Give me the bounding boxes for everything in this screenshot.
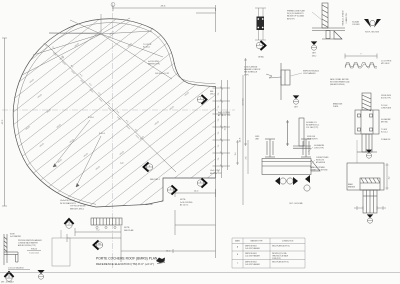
svg-text:SIMPSON HGUS: SIMPSON HGUS xyxy=(245,262,257,264)
svg-text:NOTE:: NOTE: xyxy=(124,227,130,229)
svg-text:1.5Ox 22 GA DECK: 1.5Ox 22 GA DECK xyxy=(8,267,25,270)
svg-text:AND BLOCKING (TYP): AND BLOCKING (TYP) xyxy=(18,244,36,247)
svg-text:SEE 5/S5.1: SEE 5/S5.1 xyxy=(150,179,160,181)
svg-text:AT 24 OC: AT 24 OC xyxy=(180,204,189,207)
svg-text:GLB 6 3/4 x 13 1/2: GLB 6 3/4 x 13 1/2 xyxy=(155,73,169,75)
svg-text:2'-0: 2'-0 xyxy=(218,106,220,109)
svg-text:COL CAP (TYP): COL CAP (TYP) xyxy=(306,126,319,129)
svg-text:W/ (4) 3/4 DIA BOLTS: W/ (4) 3/4 DIA BOLTS xyxy=(287,12,304,15)
svg-text:6'-2: 6'-2 xyxy=(97,230,100,232)
svg-text:PL 1/2x8: PL 1/2x8 xyxy=(381,105,387,107)
svg-text:TYP ROOF EDGE: TYP ROOF EDGE xyxy=(70,206,86,208)
svg-text:BEYOND: BEYOND xyxy=(381,122,389,124)
svg-text:1'-2: 1'-2 xyxy=(389,177,391,180)
svg-text:PROVIDE SIMPSON HANGER: PROVIDE SIMPSON HANGER xyxy=(18,239,42,242)
svg-text:4x12 RAFTER: 4x12 RAFTER xyxy=(10,235,22,238)
svg-text:2'-0: 2'-0 xyxy=(245,157,247,160)
svg-text:HSS 6x6: HSS 6x6 xyxy=(145,204,152,206)
svg-text:CONN (TYP): CONN (TYP) xyxy=(272,258,281,260)
svg-text:2'-0: 2'-0 xyxy=(218,145,220,148)
svg-text:24'-8 3/4: 24'-8 3/4 xyxy=(243,99,245,106)
svg-text:2'-0: 2'-0 xyxy=(218,132,220,135)
svg-text:CONT (TYP): CONT (TYP) xyxy=(314,148,324,150)
svg-text:EA SIDE TYP: EA SIDE TYP xyxy=(210,172,222,175)
svg-text:1'-4: 1'-4 xyxy=(235,153,237,156)
svg-text:4x12 OUTRIG: 4x12 OUTRIG xyxy=(218,112,231,114)
svg-text:EA SIDE OF GLULAM: EA SIDE OF GLULAM xyxy=(287,15,304,18)
svg-text:W 8x10: W 8x10 xyxy=(31,249,37,251)
svg-text:BOLTS (TYP): BOLTS (TYP) xyxy=(381,98,391,100)
svg-text:R 40'-6: R 40'-6 xyxy=(99,133,105,135)
svg-text:2x BLOCKING: 2x BLOCKING xyxy=(180,202,193,204)
svg-text:AT 24 OC TYP: AT 24 OC TYP xyxy=(218,114,231,117)
svg-text:GLULAM: GLULAM xyxy=(352,21,360,24)
svg-text:T. DECK: T. DECK xyxy=(381,129,388,131)
svg-text:SEE DET 4/S5.1: SEE DET 4/S5.1 xyxy=(70,208,84,210)
svg-text:CONN AT EACH RAFTER: CONN AT EACH RAFTER xyxy=(18,242,39,245)
svg-text:RAFTER (TYP): RAFTER (TYP) xyxy=(148,63,160,66)
svg-text:EL 115-6: EL 115-6 xyxy=(143,47,150,49)
svg-text:CUSSET PLATE: CUSSET PLATE xyxy=(316,156,329,159)
svg-text:JOIST HANGER: JOIST HANGER xyxy=(303,72,316,75)
svg-text:DET - 10 SCALE: DET - 10 SCALE xyxy=(1,281,15,284)
svg-text:SIMPSON HGUS: SIMPSON HGUS xyxy=(245,246,257,248)
svg-text:28'-6: 28'-6 xyxy=(161,6,167,8)
svg-text:(TYP): (TYP) xyxy=(244,74,249,76)
svg-text:W/ 3/4 DIA BOLTS: W/ 3/4 DIA BOLTS xyxy=(60,202,76,205)
svg-text:HANGER LOCATION: HANGER LOCATION xyxy=(244,68,261,71)
svg-text:BM (TYP): BM (TYP) xyxy=(287,18,295,20)
svg-text:2'-0: 2'-0 xyxy=(218,158,220,161)
svg-text:2'-0: 2'-0 xyxy=(218,119,220,122)
svg-text:GRID LINE: GRID LINE xyxy=(307,136,315,138)
svg-text:SIMPSON HGUS: SIMPSON HGUS xyxy=(245,253,257,255)
svg-text:REFERENCE ELEVATION (TM) 8'-0": REFERENCE ELEVATION (TM) 8'-0" (+0'-0") xyxy=(96,262,154,266)
svg-text:PORTE COCHERE ROOF (BMRS) PLAN: PORTE COCHERE ROOF (BMRS) PLAN xyxy=(96,257,158,261)
svg-text:1/S5.2: 1/S5.2 xyxy=(312,56,317,58)
svg-text:DETAIL: DETAIL xyxy=(258,56,264,59)
svg-text:EL 114'-2: EL 114'-2 xyxy=(381,132,388,134)
svg-text:2'-0: 2'-0 xyxy=(218,93,220,96)
svg-text:PREFAB CONN PLATE: PREFAB CONN PLATE xyxy=(287,10,306,13)
svg-text:L5x5x5/16 CONT: L5x5x5/16 CONT xyxy=(60,200,75,202)
svg-text:6 x 10 x 1/4: 6 x 10 x 1/4 xyxy=(29,253,38,255)
svg-text:CONNECTION: CONNECTION xyxy=(282,241,294,243)
svg-text:MARK: MARK xyxy=(235,240,241,243)
svg-text:COLUMN: COLUMN xyxy=(352,24,360,26)
svg-text:GLULAM COL: GLULAM COL xyxy=(306,121,317,124)
svg-text:L5x5 CONT: L5x5 CONT xyxy=(210,170,221,172)
svg-text:AT EA SIDE: AT EA SIDE xyxy=(316,161,326,164)
svg-text:DET - B4 DOME: DET - B4 DOME xyxy=(289,203,303,205)
svg-text:NOTE:: NOTE: xyxy=(180,199,186,201)
svg-text:GLULAM BM: GLULAM BM xyxy=(314,144,325,147)
svg-text:MTL DECK: MTL DECK xyxy=(381,63,390,65)
svg-text:2/S5.2: 2/S5.2 xyxy=(210,94,215,96)
svg-text:PLATE: PLATE xyxy=(333,105,339,108)
svg-text:BEAM SIDE: BEAM SIDE xyxy=(333,103,343,106)
svg-text:SEE PLAN: SEE PLAN xyxy=(124,229,134,232)
svg-text:ROOF - SECTION: ROOF - SECTION xyxy=(365,32,380,34)
svg-text:R 43'-0: R 43'-0 xyxy=(88,117,94,119)
svg-text:HANGER TYPE: HANGER TYPE xyxy=(250,240,263,243)
svg-text:LUMBER COL: LUMBER COL xyxy=(346,13,348,23)
svg-text:4x BLOCKING AT: 4x BLOCKING AT xyxy=(244,66,257,69)
